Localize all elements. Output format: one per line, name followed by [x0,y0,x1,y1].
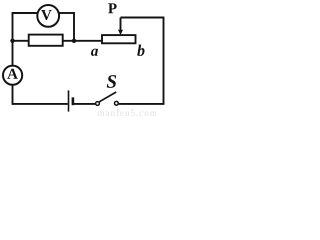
potentiometer wiper arrow [118,18,123,36]
wire right vertical [163,17,165,104]
label b [137,45,144,56]
ammeter A [3,66,22,85]
wire switch to battery [74,103,96,105]
wire top-left horizontal (to voltmeter) [13,12,38,14]
label P [108,3,116,13]
wire wiper top horizontal [121,17,164,19]
wire left vertical upper (top corner down to ammeter) [12,12,14,66]
resistor R (box) [29,35,63,46]
junction dot left (node on left branch) [10,39,14,43]
wire voltmeter right to corner [59,12,74,14]
label S [107,75,116,88]
wire vertical from voltmeter branch down to resistor net [73,12,75,41]
switch S [96,92,119,105]
wire left vertical lower (ammeter down to bottom corner) [12,85,14,105]
wire resistor right lead to potentiometer [63,40,102,42]
svg-text:manfen5.com: manfen5.com [98,108,158,117]
wire battery to bottom-left corner [13,103,68,105]
junction dot right of resistor [72,39,76,43]
battery (cell: short thick negative plate, long thin positive plate) [69,90,73,111]
label a [91,49,98,56]
wire resistor left lead [13,40,29,42]
voltmeter V [37,5,59,27]
potentiometer P (box, terminals a and b) [102,35,136,43]
wire bottom right (to switch) [119,103,165,105]
